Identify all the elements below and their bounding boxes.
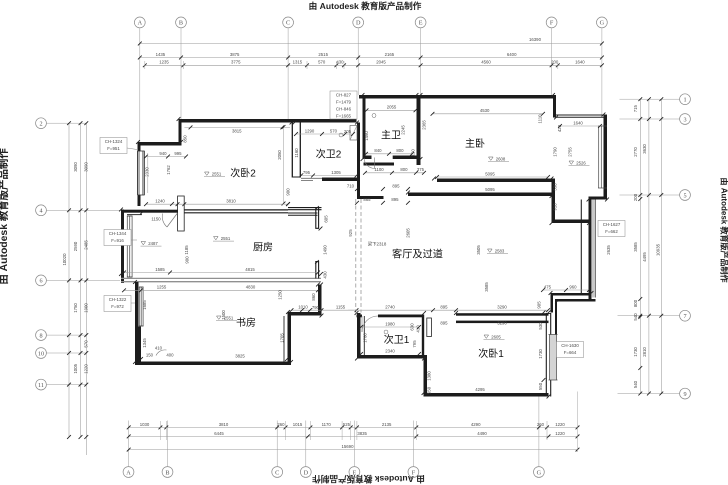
svg-text:1005: 1005 — [73, 363, 78, 373]
svg-text:3290: 3290 — [497, 305, 507, 310]
svg-text:9: 9 — [683, 391, 686, 398]
svg-text:1900: 1900 — [84, 303, 89, 313]
svg-text:860: 860 — [311, 293, 316, 301]
svg-text:F: F — [412, 469, 416, 476]
svg-text:4290: 4290 — [471, 422, 481, 427]
svg-text:2365: 2365 — [422, 120, 427, 130]
svg-text:260: 260 — [537, 422, 545, 427]
svg-text:B: B — [179, 20, 183, 27]
svg-text:4: 4 — [39, 208, 42, 215]
svg-text:1762: 1762 — [166, 165, 171, 175]
svg-text:2740: 2740 — [385, 305, 395, 310]
svg-text:CH-1344: CH-1344 — [109, 231, 127, 236]
svg-text:1290: 1290 — [305, 128, 315, 133]
svg-text:605: 605 — [323, 215, 328, 223]
svg-text:3630: 3630 — [642, 144, 647, 154]
svg-text:3: 3 — [683, 116, 686, 123]
svg-text:4495: 4495 — [642, 252, 647, 262]
svg-text:1240: 1240 — [155, 199, 165, 204]
svg-text:1730: 1730 — [633, 347, 638, 357]
svg-text:1030: 1030 — [140, 422, 150, 427]
svg-text:1015: 1015 — [293, 422, 303, 427]
svg-text:1640: 1640 — [573, 120, 583, 125]
svg-text:2810: 2810 — [642, 347, 647, 357]
svg-text:1305: 1305 — [331, 170, 341, 175]
svg-text:1: 1 — [683, 97, 686, 104]
svg-text:CH-846: CH-846 — [336, 107, 352, 112]
svg-text:3835: 3835 — [357, 431, 367, 436]
svg-text:2165: 2165 — [385, 52, 395, 57]
svg-text:2590: 2590 — [73, 241, 78, 251]
svg-text:475: 475 — [544, 284, 552, 289]
svg-text:800: 800 — [396, 148, 404, 153]
svg-text:3585: 3585 — [484, 282, 489, 292]
svg-text:F=972: F=972 — [111, 304, 124, 309]
svg-text:3875: 3875 — [230, 52, 240, 57]
svg-text:次卫2: 次卫2 — [316, 148, 342, 161]
svg-text:900: 900 — [185, 256, 190, 264]
svg-text:2551: 2551 — [212, 171, 222, 176]
svg-text:905: 905 — [537, 301, 542, 309]
svg-text:G: G — [600, 20, 605, 27]
svg-text:1220: 1220 — [555, 431, 565, 436]
svg-text:CH-1630: CH-1630 — [561, 343, 579, 348]
svg-text:C: C — [286, 20, 290, 27]
svg-text:1435: 1435 — [156, 52, 166, 57]
svg-text:2245: 2245 — [401, 125, 406, 135]
svg-text:2055: 2055 — [387, 105, 397, 110]
svg-text:3090: 3090 — [73, 162, 78, 172]
svg-text:3810: 3810 — [219, 422, 229, 427]
svg-text:梁下2318: 梁下2318 — [368, 241, 387, 248]
svg-text:630: 630 — [410, 323, 415, 331]
svg-text:2551: 2551 — [221, 236, 231, 241]
svg-text:2135: 2135 — [382, 422, 392, 427]
svg-text:1150: 1150 — [151, 217, 161, 222]
svg-text:570: 570 — [330, 128, 338, 133]
svg-text:15690: 15690 — [342, 444, 355, 449]
svg-text:710: 710 — [347, 183, 355, 188]
svg-text:10: 10 — [38, 350, 44, 357]
svg-text:200: 200 — [633, 193, 638, 201]
svg-text:895: 895 — [440, 305, 448, 310]
svg-text:1170: 1170 — [322, 422, 332, 427]
svg-text:F=951: F=951 — [107, 146, 120, 151]
svg-text:6400: 6400 — [507, 52, 517, 57]
svg-text:1760: 1760 — [363, 333, 368, 343]
svg-text:2515: 2515 — [318, 52, 328, 57]
svg-text:2: 2 — [39, 121, 42, 128]
svg-text:7: 7 — [683, 313, 686, 320]
svg-text:910: 910 — [553, 203, 558, 211]
svg-text:由 Autodesk 教育版产品制作: 由 Autodesk 教育版产品制作 — [0, 148, 10, 285]
svg-text:2485: 2485 — [84, 240, 89, 250]
svg-text:厨房: 厨房 — [253, 241, 273, 254]
svg-text:995: 995 — [174, 151, 182, 156]
svg-text:900: 900 — [286, 188, 291, 196]
svg-text:由 Autodesk 教育版产品制作: 由 Autodesk 教育版产品制作 — [312, 474, 425, 485]
svg-text:895: 895 — [440, 321, 448, 326]
svg-text:8: 8 — [39, 332, 42, 339]
svg-text:E: E — [353, 469, 357, 476]
svg-text:C: C — [275, 469, 279, 476]
svg-text:1235: 1235 — [159, 60, 169, 65]
svg-text:4830: 4830 — [246, 285, 256, 290]
svg-text:1110: 1110 — [538, 114, 543, 124]
svg-text:F=662: F=662 — [605, 229, 618, 234]
svg-text:5: 5 — [683, 192, 686, 199]
svg-text:420: 420 — [557, 124, 562, 132]
svg-text:430: 430 — [336, 60, 344, 65]
svg-text:795: 795 — [303, 170, 311, 175]
svg-text:D: D — [304, 469, 309, 476]
svg-text:865: 865 — [363, 197, 371, 202]
svg-text:1500: 1500 — [221, 310, 226, 320]
svg-text:570: 570 — [318, 60, 326, 65]
svg-text:525: 525 — [343, 422, 351, 427]
svg-text:2635: 2635 — [606, 245, 611, 255]
svg-text:2608: 2608 — [496, 156, 506, 161]
svg-text:1490: 1490 — [364, 131, 369, 141]
svg-text:2755: 2755 — [568, 147, 573, 157]
svg-text:3505: 3505 — [476, 245, 481, 255]
svg-text:10935: 10935 — [655, 243, 660, 256]
svg-text:1220: 1220 — [84, 364, 89, 374]
svg-text:800: 800 — [400, 167, 408, 172]
svg-text:3090: 3090 — [84, 162, 89, 172]
svg-text:1980: 1980 — [385, 321, 395, 326]
svg-text:400: 400 — [166, 353, 174, 358]
svg-text:795: 795 — [412, 340, 417, 348]
svg-text:次卧1: 次卧1 — [478, 347, 504, 360]
svg-text:CH-1324: CH-1324 — [105, 139, 123, 144]
svg-text:940: 940 — [159, 151, 167, 156]
svg-text:800: 800 — [633, 299, 638, 307]
svg-text:2050: 2050 — [277, 150, 282, 160]
svg-text:1345: 1345 — [142, 338, 147, 348]
svg-text:1185: 1185 — [184, 245, 189, 255]
svg-text:5095: 5095 — [485, 171, 495, 176]
svg-text:B: B — [165, 469, 169, 476]
svg-text:主卫: 主卫 — [381, 130, 401, 142]
svg-text:CH-1322: CH-1322 — [109, 297, 127, 302]
svg-text:D: D — [356, 20, 361, 27]
svg-text:4295: 4295 — [475, 387, 485, 392]
svg-text:A: A — [126, 469, 131, 476]
svg-text:2526: 2526 — [576, 160, 586, 165]
svg-text:1255: 1255 — [157, 285, 167, 290]
svg-text:850: 850 — [183, 135, 188, 143]
svg-text:1790: 1790 — [553, 147, 558, 157]
svg-text:4530: 4530 — [480, 108, 490, 113]
svg-text:由 Autodesk 教育版产品制作: 由 Autodesk 教育版产品制作 — [720, 178, 728, 283]
svg-text:895: 895 — [391, 197, 399, 202]
svg-text:3815: 3815 — [232, 128, 242, 133]
svg-text:1100: 1100 — [374, 167, 384, 172]
svg-text:主卧: 主卧 — [465, 137, 485, 150]
svg-text:次卧2: 次卧2 — [230, 167, 256, 180]
svg-text:F: F — [550, 20, 554, 27]
svg-text:11: 11 — [38, 382, 44, 389]
svg-text:570: 570 — [84, 340, 89, 348]
svg-text:F=1665: F=1665 — [336, 114, 352, 119]
svg-text:5095: 5095 — [485, 187, 495, 192]
svg-text:F=916: F=916 — [111, 238, 124, 243]
svg-text:G: G — [537, 469, 542, 476]
svg-text:16390: 16390 — [529, 37, 542, 42]
svg-text:2487: 2487 — [148, 241, 158, 246]
svg-text:1315: 1315 — [293, 60, 303, 65]
svg-text:715: 715 — [633, 105, 638, 113]
svg-text:2330: 2330 — [145, 167, 150, 177]
svg-text:2583: 2583 — [495, 248, 505, 253]
svg-text:4815: 4815 — [245, 267, 255, 272]
svg-text:CH-1627: CH-1627 — [603, 222, 621, 227]
svg-text:客厅及过道: 客厅及过道 — [392, 248, 443, 261]
svg-text:2340: 2340 — [385, 348, 395, 353]
svg-text:E: E — [419, 20, 423, 27]
svg-text:1380: 1380 — [427, 371, 432, 381]
svg-text:260: 260 — [277, 422, 285, 427]
svg-text:1250: 1250 — [278, 290, 283, 300]
svg-text:205: 205 — [344, 129, 352, 134]
svg-text:530: 530 — [553, 183, 558, 191]
svg-text:540: 540 — [633, 380, 638, 388]
svg-text:840: 840 — [374, 148, 382, 153]
svg-text:1705: 1705 — [280, 333, 285, 343]
svg-text:F=664: F=664 — [564, 350, 577, 355]
svg-text:CH-827: CH-827 — [336, 93, 352, 98]
svg-text:4560: 4560 — [481, 60, 491, 65]
svg-text:150: 150 — [146, 353, 154, 358]
svg-text:2605: 2605 — [406, 228, 411, 238]
svg-text:2770: 2770 — [633, 147, 638, 157]
svg-text:6: 6 — [39, 278, 42, 285]
svg-text:由 Autodesk 教育版产品制作: 由 Autodesk 教育版产品制作 — [309, 0, 422, 11]
svg-text:430: 430 — [323, 271, 328, 279]
svg-text:790: 790 — [312, 305, 320, 310]
svg-text:A: A — [138, 20, 143, 27]
svg-text:895: 895 — [392, 183, 400, 188]
svg-text:10020: 10020 — [62, 253, 67, 266]
svg-text:1490: 1490 — [323, 245, 328, 255]
svg-text:530: 530 — [538, 322, 543, 330]
svg-text:375: 375 — [417, 167, 425, 172]
svg-text:1160: 1160 — [294, 148, 299, 158]
svg-text:6445: 6445 — [214, 431, 224, 436]
svg-text:550: 550 — [427, 386, 432, 394]
svg-text:550: 550 — [538, 382, 543, 390]
svg-text:3775: 3775 — [231, 60, 241, 65]
svg-text:3290: 3290 — [497, 321, 507, 326]
svg-text:540: 540 — [633, 313, 638, 321]
svg-text:1585: 1585 — [155, 267, 165, 272]
svg-text:2045: 2045 — [376, 60, 386, 65]
svg-text:2605: 2605 — [491, 334, 501, 339]
svg-text:925: 925 — [348, 229, 353, 237]
svg-text:410: 410 — [155, 346, 163, 351]
svg-text:3585: 3585 — [633, 242, 638, 252]
svg-text:F=1479: F=1479 — [336, 100, 352, 105]
svg-text:4490: 4490 — [477, 431, 487, 436]
svg-text:3810: 3810 — [226, 199, 236, 204]
svg-text:次卫1: 次卫1 — [384, 333, 410, 346]
svg-text:960: 960 — [569, 284, 577, 289]
svg-text:1220: 1220 — [555, 422, 565, 427]
svg-text:1640: 1640 — [575, 60, 585, 65]
svg-text:1010: 1010 — [298, 305, 308, 310]
svg-text:3825: 3825 — [235, 353, 245, 358]
svg-text:1685: 1685 — [142, 300, 147, 310]
svg-text:1750: 1750 — [73, 303, 78, 313]
svg-text:1155: 1155 — [336, 305, 346, 310]
svg-text:书房: 书房 — [236, 316, 256, 329]
svg-text:1730: 1730 — [538, 349, 543, 359]
